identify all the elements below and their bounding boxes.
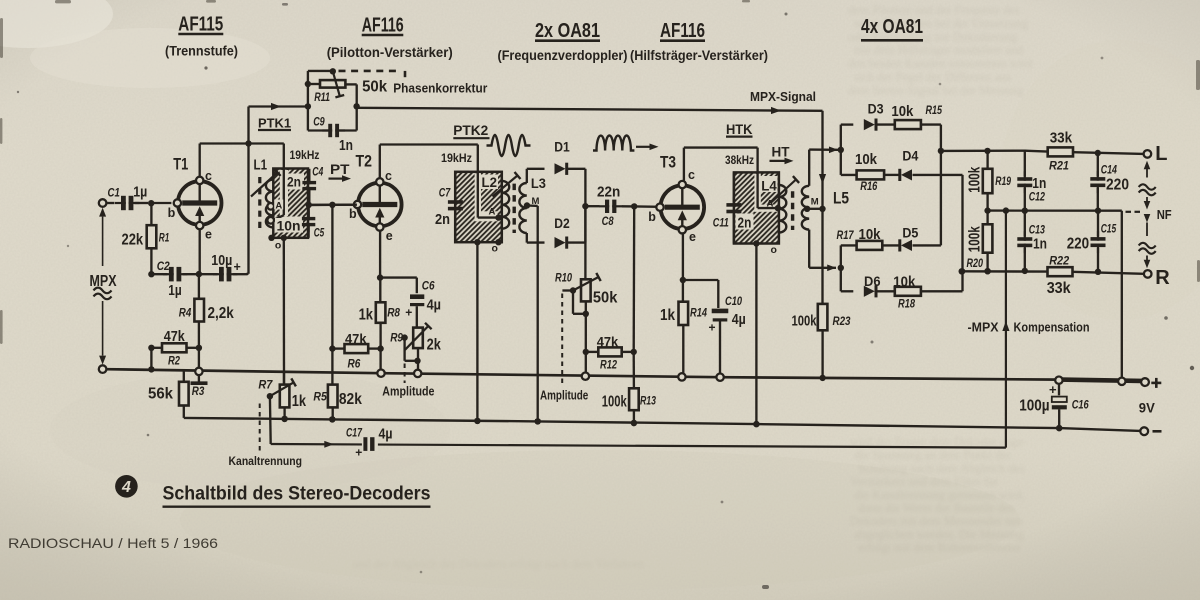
- svg-text:R16: R16: [860, 181, 877, 193]
- node R11 left lead junction: [305, 81, 311, 87]
- label plus of C16: [1049, 382, 1057, 397]
- potentiometer R7 1k: [267, 371, 296, 444]
- svg-text:C13: C13: [1029, 225, 1046, 237]
- wire R8 chain to rail: [379, 349, 381, 370]
- svg-text:R13: R13: [640, 396, 656, 408]
- resistor R18 10k: [876, 287, 962, 296]
- node R7 minus rail junction: [281, 416, 287, 422]
- arrow into lower bus: [827, 265, 836, 272]
- label R10: [555, 273, 572, 285]
- label L4: [761, 178, 777, 194]
- label 100u value of C16: [1019, 397, 1049, 414]
- svg-text:10k: 10k: [891, 104, 914, 120]
- wire PTK1 line: [249, 105, 306, 107]
- label 22n value: [597, 185, 620, 201]
- node PTK1/R11 left junction: [305, 103, 311, 109]
- svg-text:R6: R6: [348, 358, 361, 370]
- label 10k value of R15: [891, 104, 914, 120]
- junction on minus rail: [631, 420, 637, 426]
- label D1: [554, 140, 570, 155]
- svg-text:2n: 2n: [738, 216, 752, 232]
- resistor R6 47k: [332, 344, 380, 353]
- svg-text:33k: 33k: [1050, 130, 1073, 146]
- wire L1 bottom to R7: [283, 238, 286, 385]
- label R23: [833, 316, 852, 328]
- label R20: [967, 258, 984, 270]
- node T1 emitter junction: [196, 271, 202, 277]
- node C14 top junction: [1095, 150, 1101, 156]
- svg-text:+: +: [405, 306, 412, 320]
- wire R16 branch: [841, 174, 857, 176]
- resistor R23 100k: [818, 209, 828, 378]
- wire plus supply rail: [106, 369, 1141, 381]
- svg-text:+: +: [709, 321, 716, 335]
- wire T3 base chain down: [633, 206, 636, 388]
- svg-text:R17: R17: [837, 230, 854, 242]
- svg-text:R14: R14: [690, 308, 707, 320]
- arrow on feedback line: [324, 441, 334, 448]
- svg-text:2n: 2n: [287, 174, 301, 190]
- svg-text:L: L: [1155, 143, 1167, 165]
- svg-text:NF: NF: [1157, 208, 1172, 222]
- label o terminal of L1: [275, 240, 281, 252]
- label 1k value of R8: [359, 307, 374, 324]
- wire L2 feed: [478, 145, 496, 218]
- svg-text:C15: C15: [1101, 223, 1117, 235]
- node T2 emitter bias junction: [377, 274, 383, 280]
- arrow on MPX-Signal line: [771, 107, 781, 114]
- label M tap of L3: [532, 196, 540, 207]
- svg-text:PTK1: PTK1: [258, 116, 291, 131]
- svg-text:o: o: [492, 243, 498, 255]
- svg-text:Phasenkorrektur: Phasenkorrektur: [393, 81, 487, 96]
- node L1 lower tap terminal: [267, 217, 274, 224]
- node L1 winding bottom junction: [268, 235, 274, 241]
- node L1 bottom take-off junction: [281, 235, 287, 241]
- label 2n value of C11: [738, 216, 752, 232]
- label R9: [390, 333, 403, 345]
- resistor R13 100k: [629, 388, 639, 423]
- label R21: [1049, 161, 1069, 173]
- svg-text:2,2k: 2,2k: [208, 305, 235, 322]
- core dashed line of L1: [258, 177, 261, 228]
- wire L5 M tap to drop wire: [807, 208, 822, 210]
- svg-text:82k: 82k: [339, 391, 362, 408]
- svg-text:R12: R12: [600, 359, 617, 371]
- capacitor C3 10u electrolytic: [199, 267, 248, 282]
- svg-text:D2: D2: [554, 216, 570, 231]
- svg-text:R4: R4: [179, 307, 192, 319]
- label o terminal of L4: [771, 244, 777, 256]
- node L4 minus rail junction: [753, 421, 759, 427]
- svg-text:C7: C7: [439, 188, 451, 200]
- label A tap of L1: [274, 200, 283, 212]
- svg-text:die Spannung an dem Punkt der: die Spannung an dem Punkt der: [854, 448, 1011, 462]
- wire R3 to minus rail corner: [183, 406, 185, 418]
- svg-text:R15: R15: [926, 105, 943, 117]
- dashed adjust link of R10: [561, 294, 563, 384]
- label D2: [554, 216, 570, 231]
- wire D3 output corner: [940, 125, 942, 151]
- svg-text:C12: C12: [1029, 191, 1046, 203]
- svg-text:den beiden Kanalen entnommen w: den beiden Kanalen entnommen wird: [848, 57, 1032, 71]
- svg-text:47k: 47k: [597, 335, 619, 350]
- svg-text:e: e: [386, 229, 393, 243]
- wire T3 collector up: [683, 148, 685, 181]
- svg-text:C17: C17: [346, 428, 362, 440]
- node R19 top junction: [984, 148, 990, 154]
- inductor L4 winding: [779, 185, 786, 233]
- label minus terminal sign: [1153, 430, 1162, 433]
- wire ground chain crossing rail: [198, 348, 200, 368]
- pin label b of T3: [648, 210, 656, 224]
- label 2n value of C4: [286, 174, 303, 190]
- resistor R1 22k: [147, 205, 157, 248]
- figure number disc: [115, 475, 138, 498]
- wire L2 bottom to minus rail: [476, 242, 478, 421]
- svg-text:C16: C16: [1072, 400, 1089, 412]
- pin label b of T2: [349, 207, 357, 221]
- pin label c of T3: [688, 168, 695, 182]
- node top bus junction: [838, 147, 844, 153]
- label plus of C6: [405, 306, 412, 320]
- wavy approx symbol L channel: [1139, 184, 1156, 195]
- white channel for L1 feed wire: [275, 170, 305, 233]
- wire L1 to T2 base: [309, 204, 357, 207]
- svg-text:1k: 1k: [292, 393, 307, 410]
- svg-text:b: b: [168, 206, 176, 220]
- wire C8 to T3 base: [634, 205, 659, 208]
- svg-text:22n: 22n: [597, 185, 620, 201]
- label C6: [422, 281, 435, 293]
- node L output terminal: [1144, 150, 1152, 158]
- wire R4 to R2 line: [198, 322, 200, 348]
- node L5 M junction: [819, 206, 825, 212]
- label MPX with approx sign and pointer arrows: [90, 208, 117, 365]
- capacitor C15 220: [1091, 211, 1106, 272]
- label T1: [173, 156, 188, 174]
- potentiometer R11 50k: [311, 71, 357, 97]
- label R16: [860, 181, 877, 193]
- svg-text:100k: 100k: [967, 166, 984, 192]
- footer RADIOSCHAU / Heft 5 / 1966: [8, 536, 218, 551]
- svg-text:T1: T1: [173, 156, 188, 174]
- node D1/D2 junction: [582, 203, 588, 209]
- wire D1 output corner: [584, 169, 586, 206]
- capacitor C5 10n: [302, 205, 315, 238]
- svg-text:T2: T2: [356, 153, 373, 171]
- svg-text:10µ: 10µ: [211, 253, 232, 269]
- node C8/T3 base junction: [631, 203, 637, 209]
- label R14: [690, 308, 707, 320]
- wire Kompensation riser: [1005, 211, 1007, 448]
- arrow on PTK1 line: [271, 103, 281, 110]
- svg-text:1µ: 1µ: [168, 283, 181, 299]
- label 1u value: [133, 185, 147, 201]
- resistor R8 1k: [376, 278, 386, 323]
- svg-text:1k: 1k: [660, 307, 675, 324]
- svg-text:50k: 50k: [362, 79, 387, 96]
- wire T3 emitter down: [682, 232, 684, 280]
- svg-text:19kHz: 19kHz: [441, 151, 472, 165]
- wire PTK1 riser: [247, 107, 249, 144]
- label 100k value of R20 (rotated): [967, 226, 984, 252]
- label 1u value of C2: [168, 283, 181, 299]
- label 33k value of R21: [1050, 130, 1073, 146]
- label R13: [640, 396, 656, 408]
- label 220 value of C15: [1067, 236, 1090, 253]
- svg-text:dem Stereo-Signal bei der Mess: dem Stereo-Signal bei der Messung: [848, 83, 1024, 97]
- capacitor C7 2n on L2 box edge: [448, 172, 463, 242]
- label 22k value: [122, 231, 144, 248]
- label AF116 (Hilfstraeger-Verstaerker) heading: [630, 19, 768, 63]
- wire arrow to R terminal: [1144, 256, 1151, 269]
- wire T2 base lead: [309, 204, 357, 207]
- capacitor C14 220: [1090, 153, 1105, 211]
- label R8: [387, 308, 400, 320]
- svg-text:4µ: 4µ: [379, 427, 393, 443]
- svg-text:mit dem Hilfstrager moduliert: mit dem Hilfstrager moduliert und: [854, 43, 1023, 57]
- svg-text:R8: R8: [387, 308, 400, 320]
- label L1: [254, 158, 268, 174]
- transistor T1 AF115: [174, 177, 222, 230]
- wire L3 top to D1: [527, 169, 545, 183]
- label 2,2k value: [208, 305, 235, 322]
- label 10k value of R18: [893, 274, 916, 290]
- label R11: [314, 92, 330, 104]
- label 47k value of R12: [597, 335, 619, 350]
- svg-text:erfolgt mit dem Rohrenvoltmete: erfolgt mit dem Rohrenvoltmeter: [858, 541, 1021, 555]
- arrow into top bus: [829, 147, 838, 154]
- label Amplitude right: [540, 389, 588, 403]
- svg-text:2x OA81: 2x OA81: [535, 19, 600, 42]
- svg-text:2k: 2k: [427, 337, 442, 354]
- label R5: [313, 392, 327, 404]
- label 4u value of C10: [732, 312, 746, 328]
- diode D4 OA81: [900, 169, 912, 181]
- svg-text:C8: C8: [602, 216, 614, 228]
- diode D6 OA81: [864, 285, 876, 297]
- label 2x OA81 (Frequenzverdoppler) heading: [498, 19, 628, 63]
- resistor R16 10k: [857, 170, 899, 179]
- label 50k value of R11: [362, 79, 387, 96]
- svg-text:dann die Werte der Bauteile de: dann die Werte der Bauteile des: [858, 501, 1014, 515]
- label R2: [168, 356, 180, 368]
- svg-text:50k: 50k: [593, 290, 618, 307]
- svg-text:b: b: [648, 210, 656, 224]
- wire C10 branch: [683, 280, 718, 308]
- waveform 19kHz burst: [487, 135, 531, 156]
- svg-text:10k: 10k: [893, 274, 916, 290]
- capacitor C6 4u electrolytic: [410, 297, 424, 328]
- wire L channel NF stub: [1144, 197, 1151, 210]
- label 38kHz of L4: [725, 153, 754, 167]
- svg-text:2n: 2n: [435, 212, 450, 228]
- wire L5 bottom to lower bus: [809, 230, 836, 268]
- svg-text:PT: PT: [330, 161, 350, 177]
- resistor R2 47k: [151, 343, 199, 352]
- label 2n value of C7: [435, 212, 450, 228]
- svg-text:100k: 100k: [602, 394, 627, 411]
- wire channel-separation feedback line: [271, 444, 1006, 448]
- wire L1 feed into tap: [274, 144, 284, 221]
- node plus rail left terminal: [99, 365, 107, 373]
- node L2 winding bottom: [495, 239, 501, 245]
- node minus battery terminal: [1140, 427, 1148, 435]
- label R3: [192, 386, 205, 398]
- wire R-channel bus: [961, 175, 963, 291]
- wire R1 to C2 line: [150, 248, 152, 272]
- junction on minus rail: [1056, 425, 1062, 431]
- wire R1 chain to rail: [150, 348, 152, 370]
- label 4u value of C17: [379, 427, 393, 443]
- label 10n value of C5: [275, 217, 302, 233]
- label C11: [713, 218, 729, 230]
- svg-text:D1: D1: [554, 140, 570, 155]
- svg-text:T3: T3: [660, 154, 676, 172]
- label C10: [725, 296, 742, 308]
- svg-text:R5: R5: [313, 392, 327, 404]
- svg-text:-MPX: -MPX: [968, 321, 1000, 335]
- inductor L2 winding: [502, 181, 509, 229]
- resistor R20 100k: [983, 211, 993, 272]
- svg-text:D3: D3: [868, 102, 884, 117]
- svg-text:e: e: [205, 227, 212, 241]
- svg-text:+: +: [355, 446, 362, 460]
- node L2 tap A: [495, 214, 501, 220]
- node R9 chain rail terminal: [414, 370, 421, 377]
- node C16 minus rail junction: [1056, 425, 1062, 431]
- wire T1 emitter down: [199, 229, 201, 272]
- label R19: [995, 176, 1011, 188]
- potentiometer R10 50k: [562, 206, 600, 352]
- svg-text:(Frequenzverdoppler): (Frequenzverdoppler): [498, 48, 628, 63]
- svg-text:c: c: [385, 169, 392, 183]
- svg-text:C6: C6: [422, 281, 435, 293]
- label 19kHz of L2: [441, 151, 472, 165]
- node C4/base junction: [306, 202, 312, 208]
- svg-text:M: M: [811, 197, 819, 208]
- label PT with arrow: [329, 161, 352, 182]
- svg-text:38kHz: 38kHz: [725, 153, 754, 167]
- svg-text:100µ: 100µ: [1019, 397, 1049, 414]
- label A tap of L4: [767, 199, 774, 210]
- label 100k value of R13: [602, 394, 627, 411]
- inductor L1 winding: [266, 180, 273, 228]
- svg-text:C14: C14: [1101, 165, 1118, 177]
- svg-text:4µ: 4µ: [427, 298, 441, 314]
- resistor R5 82k: [328, 349, 338, 420]
- label C1: [108, 186, 121, 200]
- svg-text:und der Abgleich des Dekoders: und der Abgleich des Dekoders erfolgt na…: [352, 557, 644, 571]
- svg-text:(Hilfsträger-Verstärker): (Hilfsträger-Verstärker): [630, 48, 768, 63]
- label C4: [312, 167, 323, 179]
- svg-text:R22: R22: [1049, 256, 1070, 268]
- svg-text:L2: L2: [482, 174, 498, 190]
- label C16: [1072, 400, 1089, 412]
- node L1 tap A terminal: [267, 203, 274, 210]
- label R18: [898, 299, 915, 311]
- svg-text:1k: 1k: [359, 307, 374, 324]
- wire D5 branch left: [841, 244, 857, 246]
- svg-text:+: +: [1049, 382, 1057, 397]
- svg-text:47k: 47k: [345, 331, 367, 346]
- svg-text:220: 220: [1067, 236, 1090, 253]
- label AF115 (Trennstufe) heading: [165, 13, 238, 59]
- resistor R15 10k: [876, 120, 941, 129]
- node R10/R12 junction: [583, 349, 589, 355]
- node R bus junction at R line: [959, 268, 965, 274]
- label HT with arrow: [770, 144, 794, 165]
- svg-text:R3: R3: [192, 386, 205, 398]
- label T3: [660, 154, 676, 172]
- wire D3 branch: [841, 123, 854, 125]
- pin label c of T2: [385, 169, 392, 183]
- node R22 left junction: [959, 268, 991, 274]
- svg-text:R20: R20: [967, 258, 984, 270]
- core dashed line L4/L5: [791, 191, 794, 230]
- svg-text:4x OA81: 4x OA81: [861, 15, 923, 38]
- junction on minus rail: [281, 416, 287, 422]
- svg-text:Amplitude: Amplitude: [540, 389, 588, 403]
- label L output: [1155, 143, 1167, 165]
- label 220 value of C14: [1106, 177, 1129, 194]
- inductor L5 winding: [802, 186, 809, 230]
- label 100k value of R19 (rotated): [967, 166, 984, 192]
- label PTK2: [453, 123, 489, 138]
- svg-text:Kompensation: Kompensation: [1014, 321, 1090, 335]
- potentiometer R9 2k: [401, 323, 431, 370]
- capacitor C9 1n: [308, 124, 357, 137]
- svg-text:D5: D5: [902, 226, 918, 241]
- white channels in L4 box: [736, 174, 778, 230]
- svg-text:Dekoders mit dem Messsender ne: Dekoders mit dem Messsender neu: [850, 514, 1023, 528]
- wire R11 right drop: [356, 84, 358, 130]
- capacitor C1 1u: [106, 196, 148, 210]
- pin label e of T1: [205, 227, 212, 241]
- svg-text:Amplitude: Amplitude: [382, 385, 434, 399]
- wire NF line corner drop: [1121, 211, 1123, 378]
- svg-text:Schaltbild des Stereo-Decoders: Schaltbild des Stereo-Decoders: [163, 484, 431, 505]
- svg-text:C4: C4: [312, 167, 323, 179]
- svg-text:b: b: [349, 207, 357, 221]
- transistor T2 AF116: [354, 178, 402, 231]
- junction on minus rail: [474, 418, 480, 424]
- label 1n value of C9: [339, 138, 353, 154]
- capacitor C10 4u electrolytic: [712, 311, 729, 374]
- white channels in L2 box: [475, 173, 498, 221]
- node R13 minus rail junction: [631, 420, 637, 426]
- node R11 wiper top junction: [330, 68, 336, 74]
- label plus of C17: [355, 446, 362, 460]
- svg-text:4: 4: [121, 479, 131, 496]
- label 4x OA81 heading: [861, 15, 923, 40]
- label D5: [902, 226, 918, 241]
- resistor R22 33k: [1048, 267, 1073, 276]
- label plus of C10: [709, 321, 716, 335]
- svg-text:MPX: MPX: [90, 273, 117, 290]
- resistor R4 2,2k: [194, 276, 204, 322]
- node R1 bottom junction: [148, 271, 154, 277]
- node R output terminal: [1144, 270, 1152, 278]
- label R7: [258, 379, 273, 391]
- label 9V battery: [1139, 401, 1155, 416]
- svg-text:(Pilotton-Verstärker): (Pilotton-Verstärker): [327, 45, 453, 60]
- wire R10 chain to rail: [585, 352, 587, 373]
- wire M tap drop to minus rail: [527, 206, 538, 422]
- node plus battery terminal: [1141, 378, 1149, 386]
- node R12/R13 junction: [631, 349, 637, 355]
